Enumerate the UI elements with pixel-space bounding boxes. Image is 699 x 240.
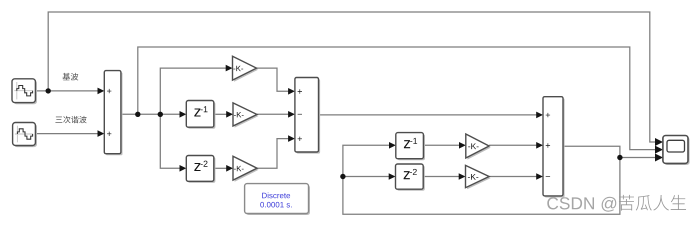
wire: bus tap up to gain G1: [160, 65, 232, 115]
wire: bus tap down to delay z-2: [160, 114, 186, 171]
wire: source2 to sum S1 input 2: [35, 130, 104, 137]
gain block G4: [466, 134, 491, 160]
unit delay block z-1 (first): [186, 101, 215, 129]
wire: bus tap to Scope input 2 via top: [138, 47, 663, 154]
junction node bus branch: [158, 112, 163, 117]
wire: gain G5 to sum S3 input 3: [489, 173, 543, 180]
wire: feedback down and along bottom to z-1 (second): [343, 142, 620, 214]
sum block S3: [543, 97, 565, 198]
wire: z-1 to gain G2: [214, 111, 233, 118]
watermark CSDN @苦瓜人生: [547, 195, 686, 212]
wire: source1 to sum S1 input 1: [35, 88, 104, 95]
junction node feedback branch: [340, 174, 345, 179]
gain block G1: [233, 56, 259, 81]
junction node on source1 wire: [46, 88, 51, 93]
sine wave source block (fundamental): [12, 79, 37, 104]
wire: z-2 (second) to gain G5: [423, 173, 465, 180]
wire: sum S2 output to sum S3 input 1: [319, 112, 544, 119]
wire: sum S3 output to output node: [563, 146, 663, 161]
gain block G5: [466, 165, 491, 189]
wire: gain G2 to sum S2 input 2: [257, 111, 295, 118]
label 三次谐波 (third harmonic): [55, 116, 86, 123]
delay block z-2 (second): [396, 164, 425, 191]
sum block S2: [295, 78, 320, 154]
wire: feedback tap to delay z-2 (second): [343, 173, 396, 180]
wire: gain G1 to sum S2 input 1: [257, 68, 295, 95]
sine wave source block (third harmonic): [13, 123, 37, 148]
unit delay block z-1 (second): [396, 133, 425, 161]
wire: z-2 to gain G3: [214, 165, 233, 172]
annotation: Discrete 0.0001 s. sample time box: [245, 184, 310, 215]
wire: sum S1 output bus to unit delay z-1: [121, 111, 186, 118]
delay block z-2 (first): [186, 156, 215, 183]
wire: feed to Scope input 1 (top long wire): [48, 12, 663, 146]
gain block G2: [233, 103, 259, 128]
scope block: [663, 136, 690, 166]
junction node output/feedback: [617, 155, 622, 160]
label 基波 (fundamental): [62, 73, 78, 81]
wire: z-1 (second) to gain G4: [423, 142, 465, 149]
wire: gain G3 to sum S2 input 3: [257, 135, 295, 168]
gain block G3: [233, 156, 259, 181]
junction node bus/scope tap: [135, 112, 140, 117]
sum block S1: [104, 71, 122, 156]
wire: gain G4 to sum S3 input 2: [489, 142, 543, 149]
